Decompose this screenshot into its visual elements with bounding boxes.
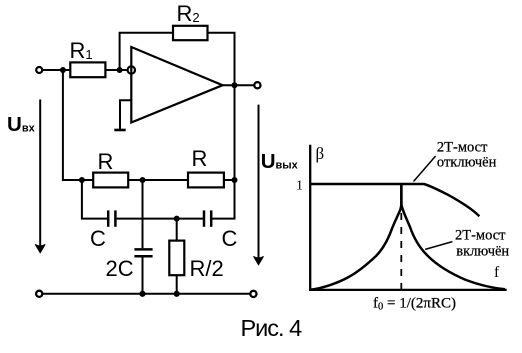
- node R/2 rail: [174, 291, 180, 297]
- svg-text:2Т-мост: 2Т-мост: [437, 140, 488, 156]
- terminal bottom-right: [250, 291, 256, 297]
- op-amp U1: [131, 47, 222, 123]
- svg-text:2Т-мост: 2Т-мост: [455, 228, 506, 244]
- wire input to R1: [43, 69, 71, 71]
- graph y-axis: [309, 145, 311, 291]
- wire C row mid: [117, 218, 203, 220]
- curve 2T-bridge on (notch response): [310, 186, 505, 290]
- wire output down: [234, 85, 236, 180]
- dashed line f0: [400, 213, 402, 289]
- wire R1 to op-amp: [105, 69, 127, 71]
- node A top-T centre: [140, 177, 146, 183]
- resistor R right: [188, 173, 224, 188]
- curve 2T-bridge off (flat with droop): [310, 184, 479, 216]
- wire R/2 branch: [176, 219, 178, 242]
- capacitor 2C: [134, 249, 152, 256]
- svg-text:C: C: [90, 226, 106, 251]
- ground: [114, 129, 125, 132]
- node feedback tap: [117, 67, 123, 73]
- svg-text:R: R: [98, 149, 114, 174]
- wire feedback up and over: [120, 33, 173, 70]
- arrow Uvx: [35, 100, 45, 253]
- wire rail mid: [128, 179, 188, 181]
- svg-text:f0 = 1/(2πRC): f0 = 1/(2πRC): [373, 296, 456, 313]
- wire output down to C row: [211, 180, 234, 219]
- svg-text:отключён: отключён: [437, 155, 497, 171]
- wire input down to rail: [63, 70, 93, 180]
- node left C tap: [79, 177, 85, 183]
- wire op-amp output: [223, 84, 254, 86]
- svg-text:f: f: [494, 264, 500, 281]
- resistor R left: [93, 173, 128, 188]
- svg-text:β: β: [316, 144, 325, 163]
- resistor R2: [173, 26, 208, 40]
- callout line 2T off: [414, 156, 436, 182]
- svg-text:R: R: [192, 146, 208, 171]
- arrow Uvyh: [254, 105, 264, 265]
- svg-text:C: C: [222, 226, 238, 251]
- op-amp inverting input bubble: [128, 66, 135, 73]
- resistor R1: [70, 62, 105, 77]
- wire non-inverting input: [120, 100, 131, 129]
- svg-text:Рис. 4: Рис. 4: [241, 315, 303, 341]
- node B bottom-T centre: [174, 216, 180, 222]
- wire R/2 to rail: [176, 275, 178, 294]
- wire 2C to rail: [142, 258, 144, 294]
- node output rail: [232, 177, 238, 183]
- capacitor C left: [108, 210, 115, 226]
- svg-text:включён: включён: [456, 244, 509, 260]
- node input junction: [60, 67, 66, 73]
- svg-text:1: 1: [296, 179, 303, 194]
- terminal input: [36, 67, 42, 73]
- callout line 2T on: [425, 242, 452, 250]
- wire R2 to output node: [208, 33, 235, 85]
- svg-text:R/2: R/2: [190, 256, 224, 281]
- wire 2C branch: [142, 180, 144, 248]
- wire rail right: [224, 179, 235, 181]
- terminal output: [254, 82, 260, 88]
- capacitor C right: [204, 210, 211, 226]
- resistor R/2: [169, 241, 184, 276]
- graph x-axis: [309, 289, 507, 291]
- svg-text:2C: 2C: [106, 256, 134, 281]
- wire bottom rail: [43, 293, 250, 295]
- wire left C branch: [82, 180, 107, 219]
- node 2C rail: [139, 291, 145, 297]
- terminal bottom-left: [36, 291, 42, 297]
- node output: [232, 82, 238, 88]
